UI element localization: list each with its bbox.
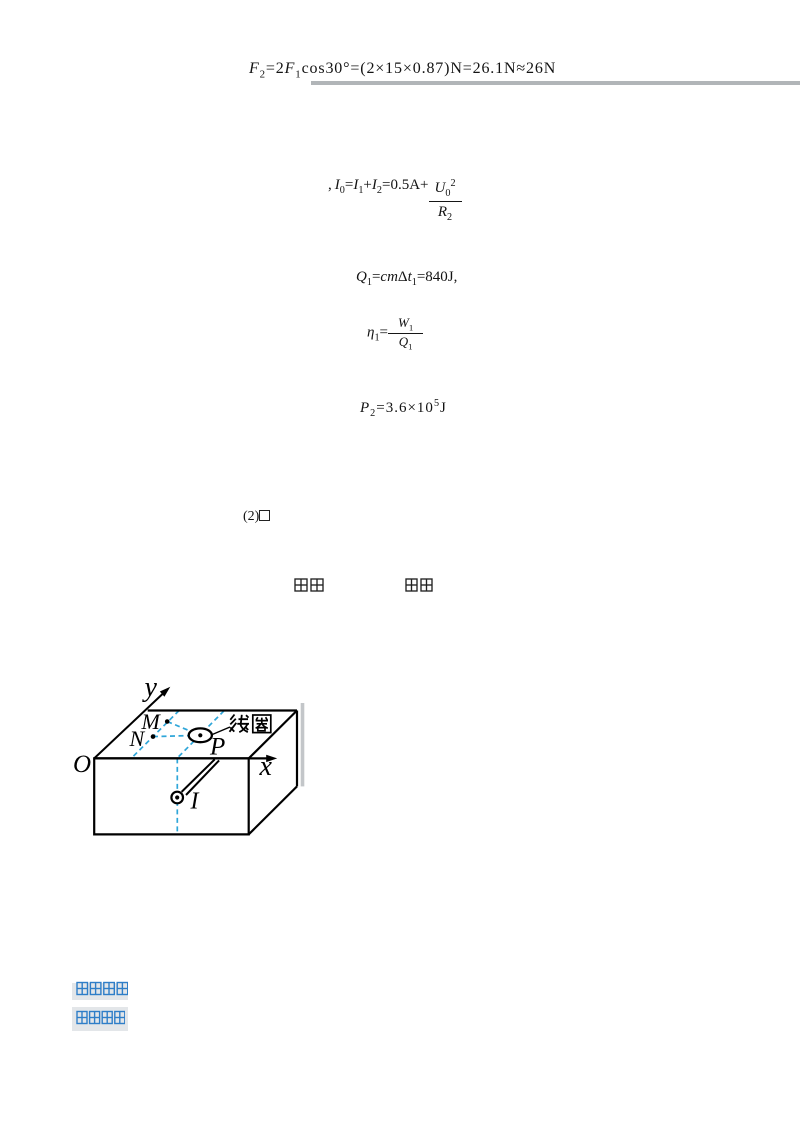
diagram white background — [63, 679, 305, 845]
y axis — [94, 694, 163, 759]
point N dot — [151, 734, 156, 739]
gray scrollbar strip — [301, 703, 305, 786]
svg-text:O: O — [73, 751, 91, 778]
small answer word B — [405, 578, 433, 592]
title formula line — [249, 60, 556, 80]
cuboid right-top slant edge — [249, 711, 297, 759]
cuboid top-back edge — [148, 709, 297, 711]
svg-text:x: x — [259, 751, 273, 782]
coil ellipse — [189, 728, 212, 742]
formula line 4 with fraction — [367, 316, 423, 352]
coil center dot — [198, 733, 202, 737]
blue link 2 highlight — [72, 1007, 128, 1031]
small answer word A — [294, 578, 324, 592]
dashed projection line through coil (top-face part) — [177, 711, 224, 758]
blue link 1 — [76, 981, 128, 996]
rod (straight wire) — [182, 759, 215, 792]
connector line to coil label — [212, 727, 230, 735]
svg-text:y: y — [142, 679, 158, 703]
formula line 2 with fraction — [328, 177, 462, 224]
svg-text:I: I — [190, 789, 200, 815]
wire circle with current dot — [171, 792, 183, 804]
cuboid back-right vertical edge — [296, 711, 298, 787]
formula line 3 — [356, 269, 457, 288]
x axis arrowhead — [266, 755, 277, 762]
cuboid bottom-right slant edge — [249, 786, 297, 834]
blue link 1 highlight — [72, 983, 128, 1000]
coil label glyph 线 — [230, 715, 250, 733]
dashed line through N parallel to y — [131, 711, 179, 759]
x axis — [94, 757, 267, 759]
svg-text:N: N — [129, 726, 146, 751]
dashed vertical projection line on front face — [176, 758, 178, 834]
y axis arrowhead — [160, 687, 171, 697]
dashed M-to-coil line — [167, 722, 200, 736]
gray bar under title — [311, 81, 800, 85]
blue link 2 — [76, 1010, 125, 1025]
small text (2) — [243, 509, 270, 525]
physics diagram — [63, 679, 305, 845]
point M dot — [165, 719, 170, 724]
cuboid front face — [94, 758, 249, 834]
dashed N-to-coil line — [153, 735, 200, 736]
coil label glyph 圈 — [253, 715, 271, 733]
formula line 5 — [360, 398, 447, 419]
svg-text:P: P — [209, 734, 225, 761]
